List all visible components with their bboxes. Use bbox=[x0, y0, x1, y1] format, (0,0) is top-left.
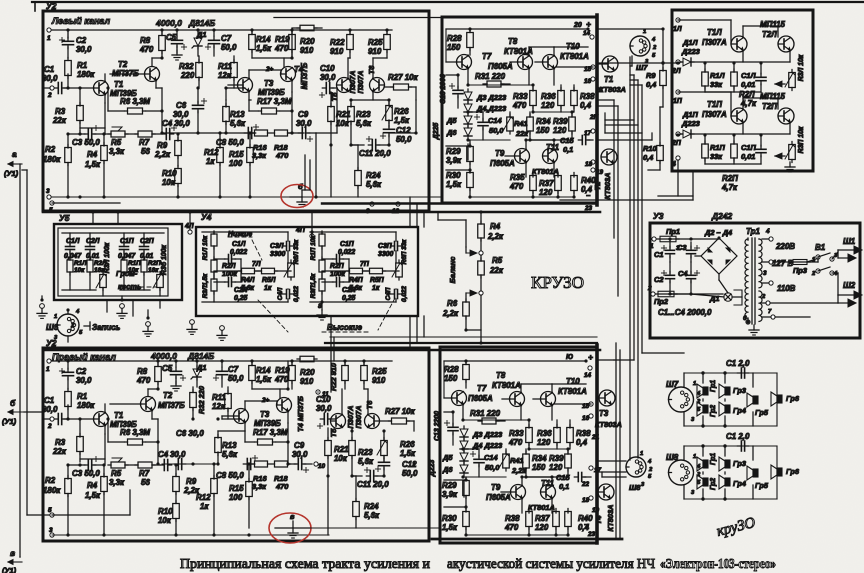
svg-text:R6П 33к: R6П 33к bbox=[401, 239, 408, 265]
svg-text:Принципиальная схема тракт: Принципиальная схема тракта усиления и bbox=[180, 556, 430, 571]
svg-text:1: 1 bbox=[54, 314, 57, 320]
wire bbox=[704, 134, 706, 144]
svg-text:−: − bbox=[584, 520, 589, 529]
wire bbox=[52, 202, 120, 204]
svg-text:Д1П: Д1П bbox=[682, 110, 698, 119]
resistor R1 bbox=[65, 392, 72, 407]
svg-text:Ю: Ю bbox=[566, 354, 573, 361]
wire bbox=[832, 252, 838, 259]
svg-text:R1Л 10к: R1Л 10к bbox=[202, 235, 209, 260]
diode D6 bbox=[464, 128, 472, 136]
wire bbox=[770, 302, 838, 304]
svg-text:50,0: 50,0 bbox=[221, 43, 237, 52]
svg-text:С1П: С1П bbox=[741, 143, 756, 152]
svg-text:Гр1: Гр1 bbox=[710, 380, 717, 392]
svg-text:22к: 22к bbox=[489, 266, 504, 275]
label 110V bbox=[769, 281, 773, 285]
svg-text:R13: R13 bbox=[222, 441, 237, 450]
wire bus bbox=[330, 336, 597, 338]
svg-text:С10: С10 bbox=[320, 64, 335, 73]
wire bbox=[678, 19, 731, 21]
svg-text:Т2: Т2 bbox=[118, 60, 128, 69]
svg-text:33к: 33к bbox=[710, 80, 723, 89]
svg-text:R3Л 10к: R3Л 10к bbox=[798, 54, 805, 81]
fuse Pr3 bbox=[793, 260, 807, 265]
svg-text:12к: 12к bbox=[218, 71, 232, 80]
svg-text:910: 910 bbox=[372, 376, 386, 385]
svg-text:R3Л1,5к: R3Л1,5к bbox=[202, 273, 209, 298]
svg-text:С2П: С2П bbox=[140, 238, 155, 245]
wire bbox=[156, 87, 162, 89]
svg-text:50,0: 50,0 bbox=[396, 135, 412, 144]
svg-text:R3Л 100к: R3Л 100к bbox=[104, 242, 111, 273]
wire bbox=[19, 164, 21, 557]
diode D6 bbox=[460, 465, 468, 473]
svg-text:Т4 МП37Б: Т4 МП37Б bbox=[296, 396, 305, 432]
svg-text:R27 10к: R27 10к bbox=[388, 73, 419, 82]
svg-text:30,0: 30,0 bbox=[173, 110, 189, 119]
capacitor C1Л bbox=[731, 72, 738, 86]
svg-text:R28: R28 bbox=[447, 34, 462, 43]
wire bbox=[597, 460, 626, 462]
svg-text:R41: R41 bbox=[514, 119, 528, 128]
wire bbox=[222, 418, 241, 420]
svg-text:50,0: 50,0 bbox=[489, 126, 504, 135]
svg-text:МП115: МП115 bbox=[760, 20, 786, 29]
svg-text:С1...С4 2000,0: С1...С4 2000,0 bbox=[658, 308, 712, 317]
svg-text:−: − bbox=[586, 191, 591, 200]
connector Sh7 socket bbox=[630, 36, 650, 56]
svg-text:Т3: Т3 bbox=[264, 79, 274, 88]
svg-text:R6 3,3М: R6 3,3М bbox=[120, 97, 150, 106]
svg-text:Т7: Т7 bbox=[477, 384, 487, 393]
svg-text:1,5к: 1,5к bbox=[256, 375, 272, 384]
svg-text:2,2к: 2,2к bbox=[487, 232, 504, 241]
svg-text:0,25: 0,25 bbox=[234, 295, 248, 302]
svg-text:КТ801А: КТ801А bbox=[528, 503, 555, 512]
node 2 bbox=[50, 86, 54, 90]
svg-text:R38: R38 bbox=[580, 92, 595, 101]
wire bbox=[597, 99, 614, 101]
wire bbox=[446, 145, 470, 147]
ground bbox=[753, 325, 755, 330]
wire bus vertical bbox=[409, 197, 411, 227]
svg-text:Гр5: Гр5 bbox=[755, 408, 769, 417]
wire bbox=[629, 458, 631, 460]
svg-text:220: 220 bbox=[180, 71, 195, 80]
svg-text:R8: R8 bbox=[137, 367, 148, 376]
svg-text:С1Л: С1Л bbox=[66, 238, 80, 245]
wire bus verticals bbox=[409, 316, 411, 350]
wire bbox=[24, 411, 43, 413]
transistor T1 KT803A bbox=[602, 56, 618, 72]
wire bbox=[444, 479, 466, 481]
capacitor C1П bbox=[731, 144, 738, 158]
svg-text:30,0: 30,0 bbox=[42, 405, 58, 414]
svg-text:П605А: П605А bbox=[486, 493, 511, 502]
svg-text:33к: 33к bbox=[710, 152, 723, 161]
svg-text:0,25: 0,25 bbox=[342, 295, 356, 302]
svg-text:R22: R22 bbox=[330, 38, 345, 47]
svg-text:0,022: 0,022 bbox=[230, 249, 247, 256]
svg-text:Д223: Д223 bbox=[681, 119, 701, 128]
resistor R1Л 33k bbox=[702, 72, 709, 86]
wire bbox=[162, 463, 218, 465]
svg-text:КТ803А: КТ803А bbox=[606, 505, 615, 532]
svg-text:Д2 – Д4: Д2 – Д4 bbox=[704, 228, 732, 237]
svg-text:120: 120 bbox=[537, 438, 551, 447]
svg-text:С9: С9 bbox=[294, 441, 305, 450]
speaker Gr5 bbox=[753, 396, 758, 404]
svg-text:R33: R33 bbox=[509, 429, 524, 438]
svg-text:«Электрон-103-стерео»: «Электрон-103-стерео» bbox=[660, 556, 776, 571]
svg-text:Т1: Т1 bbox=[114, 411, 123, 420]
svg-text:3,3к: 3,3к bbox=[109, 478, 125, 487]
svg-text:5,6к: 5,6к bbox=[364, 511, 380, 520]
svg-text:С2Л: С2Л bbox=[86, 238, 100, 245]
svg-text:50,0: 50,0 bbox=[485, 463, 500, 472]
svg-text:4000,0: 4000,0 bbox=[150, 351, 177, 361]
wire bbox=[747, 318, 749, 322]
svg-text:Баланс: Баланс bbox=[448, 256, 457, 284]
svg-text:Д223: Д223 bbox=[681, 47, 701, 56]
node 2 bbox=[50, 417, 54, 421]
transistor T3 KT803A bbox=[599, 390, 615, 406]
wire bbox=[226, 87, 245, 89]
svg-text:R2П: R2П bbox=[330, 263, 345, 270]
svg-text:5,6к: 5,6к bbox=[222, 450, 238, 459]
svg-text:R3П1,5к: R3П1,5к bbox=[310, 273, 317, 299]
svg-text:Пр1: Пр1 bbox=[666, 227, 680, 236]
svg-text:R10: R10 bbox=[643, 144, 657, 153]
resistor R1 bbox=[65, 61, 72, 76]
svg-text:1П: 1П bbox=[673, 98, 683, 105]
svg-text:2П: 2П bbox=[589, 114, 599, 121]
svg-text:R9: R9 bbox=[186, 477, 197, 486]
transistor T4 MP37B bbox=[281, 67, 296, 82]
wire bbox=[52, 514, 130, 516]
svg-text:R11: R11 bbox=[218, 62, 232, 71]
speaker Gr2 bbox=[703, 478, 708, 486]
svg-text:С8 50,0: С8 50,0 bbox=[216, 138, 244, 147]
wire rail bbox=[52, 534, 329, 536]
connector Sh8 socket bbox=[626, 457, 646, 477]
wire bbox=[34, 2, 36, 11]
svg-text:R34: R34 bbox=[532, 454, 547, 463]
svg-text:С9: С9 bbox=[298, 110, 309, 119]
svg-text:14: 14 bbox=[584, 372, 592, 379]
svg-text:120: 120 bbox=[539, 188, 553, 197]
svg-text:R8: R8 bbox=[140, 36, 151, 45]
svg-text:Д814Б: Д814Б bbox=[187, 351, 214, 361]
resistor R7 bbox=[138, 131, 152, 137]
svg-text:R32: R32 bbox=[179, 62, 194, 71]
svg-text:С4: С4 bbox=[678, 269, 687, 278]
wire bbox=[443, 361, 445, 398]
wire bbox=[704, 62, 706, 72]
svg-text:R27 10к: R27 10к bbox=[385, 407, 416, 416]
svg-text:18: 18 bbox=[585, 161, 593, 168]
speaker Gr2 bbox=[703, 405, 708, 413]
connector Ш7 plug bbox=[669, 387, 694, 412]
svg-text:1,5к: 1,5к bbox=[85, 160, 101, 169]
wire mesh box A bbox=[42, 87, 44, 89]
svg-text:(У1): (У1) bbox=[2, 417, 17, 426]
svg-text:Гр3: Гр3 bbox=[733, 386, 747, 395]
svg-text:0,4: 0,4 bbox=[580, 101, 592, 110]
wire bbox=[554, 46, 588, 48]
svg-text:R7: R7 bbox=[139, 138, 150, 147]
svg-text:R31 220: R31 220 bbox=[475, 72, 506, 81]
svg-text:Д225: Д225 bbox=[433, 123, 440, 141]
label record bbox=[84, 325, 90, 327]
svg-text:Т6: Т6 bbox=[367, 65, 376, 75]
svg-text:С3 50,0: С3 50,0 bbox=[72, 138, 100, 147]
node 15 bbox=[589, 402, 593, 406]
node 2П bbox=[676, 132, 680, 136]
wire bbox=[678, 91, 731, 93]
svg-text:С1 2,0: С1 2,0 bbox=[726, 432, 750, 441]
wire bbox=[213, 232, 215, 234]
node 1 bbox=[47, 28, 51, 32]
capacitor plates bbox=[756, 148, 766, 150]
capacitor C14 bbox=[470, 453, 475, 455]
diode D3 bbox=[464, 92, 472, 100]
svg-text:2Л: 2Л bbox=[671, 68, 681, 75]
svg-text:470: 470 bbox=[274, 375, 289, 384]
svg-text:Д223: Д223 bbox=[429, 460, 436, 478]
svg-text:R2П: R2П bbox=[148, 260, 161, 267]
svg-text:150: 150 bbox=[532, 463, 546, 472]
svg-text:120: 120 bbox=[541, 101, 555, 110]
svg-text:R23: R23 bbox=[358, 448, 373, 457]
svg-text:Т7: Т7 bbox=[482, 52, 492, 61]
svg-text:10к: 10к bbox=[74, 267, 85, 274]
svg-text:R40: R40 bbox=[581, 176, 596, 185]
resistor R20 bbox=[300, 356, 314, 362]
speaker Gr1 bbox=[703, 387, 708, 395]
svg-text:С4 30,0: С4 30,0 bbox=[162, 119, 190, 128]
wire bbox=[62, 232, 164, 234]
capacitor C2 bbox=[67, 30, 69, 38]
svg-text:Гр1: Гр1 bbox=[710, 453, 717, 465]
svg-text:1: 1 bbox=[693, 381, 696, 387]
svg-text:Т4: Т4 bbox=[594, 516, 603, 525]
svg-text:0,047: 0,047 bbox=[118, 253, 136, 260]
svg-text:150: 150 bbox=[444, 374, 458, 383]
resistor R5 trimmer bbox=[111, 131, 125, 137]
svg-text:10: 10 bbox=[318, 463, 326, 470]
svg-text:11: 11 bbox=[322, 391, 329, 398]
svg-text:1к: 1к bbox=[372, 285, 380, 292]
svg-text:П605А: П605А bbox=[468, 394, 493, 403]
resistor R14 bbox=[249, 366, 256, 381]
diode D5 bbox=[464, 116, 472, 124]
node 1 bbox=[47, 359, 51, 363]
wire bbox=[438, 219, 466, 221]
svg-text:Д6: Д6 bbox=[442, 465, 453, 474]
svg-text:180к: 180к bbox=[43, 486, 61, 495]
wire bbox=[41, 296, 43, 300]
wire bbox=[444, 360, 586, 362]
wire bbox=[310, 527, 440, 529]
svg-text:R25: R25 bbox=[368, 38, 383, 47]
svg-text:Гр4: Гр4 bbox=[733, 406, 746, 415]
resistor R5Л bbox=[262, 268, 275, 274]
svg-text:Гр6: Гр6 bbox=[786, 394, 800, 403]
junction dots bbox=[66, 28, 69, 31]
svg-text:КТ801А: КТ801А bbox=[560, 52, 589, 61]
node 14 bbox=[588, 366, 592, 370]
svg-text:П307А: П307А bbox=[702, 110, 727, 119]
node bbox=[701, 444, 704, 447]
svg-text:470: 470 bbox=[274, 44, 289, 53]
svg-text:Т2Л: Т2Л bbox=[762, 30, 777, 39]
svg-text:R15: R15 bbox=[229, 150, 244, 159]
wire bbox=[315, 133, 317, 197]
svg-text:22к: 22к bbox=[52, 116, 67, 125]
wire bbox=[642, 352, 684, 354]
svg-text:Т2П: Т2П bbox=[762, 102, 777, 111]
svg-text:1к: 1к bbox=[206, 157, 215, 166]
svg-text:0,1: 0,1 bbox=[559, 482, 569, 491]
wire bbox=[372, 92, 374, 100]
svg-text:R17 3,3М: R17 3,3М bbox=[253, 428, 288, 437]
svg-text:П605А: П605А bbox=[488, 62, 513, 71]
svg-text:С12: С12 bbox=[396, 126, 411, 135]
svg-text:21: 21 bbox=[591, 434, 600, 441]
svg-text:R37: R37 bbox=[535, 514, 550, 523]
svg-text:С1Л: С1Л bbox=[741, 71, 756, 80]
node 14 bbox=[590, 35, 594, 39]
svg-text:22к: 22к bbox=[52, 447, 67, 456]
resistor R2P bbox=[141, 260, 147, 272]
svg-text:С2: С2 bbox=[76, 367, 87, 376]
node 17 bbox=[591, 129, 595, 133]
svg-text:R20: R20 bbox=[300, 37, 315, 46]
wire bbox=[32, 1, 864, 3]
svg-text:180к: 180к bbox=[43, 155, 61, 164]
node 1Л bbox=[676, 18, 680, 22]
svg-text:30,0: 30,0 bbox=[316, 404, 332, 413]
svg-text:470: 470 bbox=[509, 182, 524, 191]
svg-text:12к: 12к bbox=[212, 402, 226, 411]
svg-text:R29: R29 bbox=[442, 481, 457, 490]
svg-text:Т1Л: Т1Л bbox=[707, 28, 722, 37]
svg-text:0,022: 0,022 bbox=[401, 286, 408, 302]
svg-text:16к: 16к bbox=[148, 267, 159, 274]
svg-text:R10: R10 bbox=[158, 507, 173, 516]
wire bbox=[747, 238, 749, 240]
wire bbox=[677, 160, 679, 196]
svg-text:R1П: R1П bbox=[128, 260, 141, 267]
svg-text:КТ801А: КТ801А bbox=[532, 167, 559, 176]
svg-text:5,6к: 5,6к bbox=[241, 285, 255, 292]
svg-text:П605А: П605А bbox=[490, 159, 515, 168]
svg-text:R33: R33 bbox=[513, 92, 528, 101]
ground v circled red bbox=[275, 527, 310, 529]
connector Ш8 plug bbox=[669, 460, 694, 485]
svg-text:56: 56 bbox=[141, 478, 150, 487]
svg-text:1,5к: 1,5к bbox=[400, 449, 416, 458]
svg-text:R1Л: R1Л bbox=[74, 260, 87, 267]
svg-text:17: 17 bbox=[584, 130, 592, 137]
label 127V bbox=[769, 260, 773, 264]
svg-text:R38: R38 bbox=[505, 514, 520, 523]
svg-text:910: 910 bbox=[300, 46, 314, 55]
svg-text:R14: R14 bbox=[256, 366, 271, 375]
svg-text:Ш7: Ш7 bbox=[666, 380, 679, 389]
svg-text:Д6: Д6 bbox=[446, 128, 457, 137]
svg-text:1,5к: 1,5к bbox=[256, 44, 272, 53]
wire bbox=[152, 418, 158, 420]
resistor R1P bbox=[121, 260, 127, 272]
wire bbox=[670, 293, 723, 295]
svg-text:У5: У5 bbox=[59, 213, 70, 223]
svg-text:30,0: 30,0 bbox=[320, 73, 336, 82]
svg-text:10к: 10к bbox=[334, 454, 348, 463]
svg-text:МП39Б: МП39Б bbox=[258, 88, 285, 97]
svg-text:180к: 180к bbox=[77, 70, 95, 79]
svg-text:470: 470 bbox=[512, 101, 527, 110]
svg-text:R3: R3 bbox=[55, 438, 66, 447]
svg-text:4: 4 bbox=[765, 228, 770, 235]
svg-text:Ш8: Ш8 bbox=[629, 483, 641, 492]
node 18 bbox=[589, 496, 593, 500]
svg-text:1Л: 1Л bbox=[673, 26, 682, 33]
capacitor C7 bbox=[213, 30, 215, 36]
wire bbox=[702, 446, 704, 456]
svg-text:R24: R24 bbox=[364, 502, 379, 511]
wire bbox=[106, 300, 108, 312]
transistor T6 P307A bbox=[370, 78, 385, 93]
wire bbox=[67, 310, 69, 314]
svg-text:Д814Б: Д814Б bbox=[188, 18, 215, 28]
svg-text:Т8: Т8 bbox=[496, 371, 506, 380]
svg-text:0,4: 0,4 bbox=[643, 153, 653, 162]
svg-text:С14: С14 bbox=[488, 116, 502, 125]
svg-text:R6: R6 bbox=[447, 299, 458, 308]
svg-text:R1: R1 bbox=[77, 392, 87, 401]
svg-text:У4: У4 bbox=[201, 212, 212, 222]
svg-text:R5: R5 bbox=[111, 138, 122, 147]
block U2 left channel bbox=[43, 11, 429, 211]
svg-text:1,5к: 1,5к bbox=[446, 180, 462, 189]
wire bbox=[317, 391, 319, 393]
svg-text:R13: R13 bbox=[230, 110, 245, 119]
svg-text:1: 1 bbox=[46, 366, 50, 373]
svg-text:Ш8: Ш8 bbox=[666, 453, 679, 462]
svg-text:КРУЗО: КРУЗО bbox=[531, 273, 584, 292]
svg-text:С3Л: С3Л bbox=[270, 243, 284, 250]
svg-text:R25: R25 bbox=[372, 367, 387, 376]
resistor R18 bbox=[275, 130, 288, 136]
node 1П bbox=[676, 90, 680, 94]
wire bbox=[684, 445, 777, 447]
svg-text:0,01: 0,01 bbox=[86, 253, 100, 260]
svg-text:R4: R4 bbox=[87, 481, 98, 490]
wire bbox=[619, 460, 621, 462]
svg-text:470: 470 bbox=[136, 376, 151, 385]
svg-text:23: 23 bbox=[587, 531, 596, 538]
svg-text:120: 120 bbox=[535, 523, 549, 532]
svg-text:30,0: 30,0 bbox=[170, 450, 186, 459]
svg-text:R30: R30 bbox=[442, 514, 457, 523]
svg-text:470: 470 bbox=[504, 523, 519, 532]
svg-text:910: 910 bbox=[300, 377, 314, 386]
svg-text:Д5: Д5 bbox=[442, 453, 453, 462]
capacitor C2 bbox=[67, 361, 69, 369]
